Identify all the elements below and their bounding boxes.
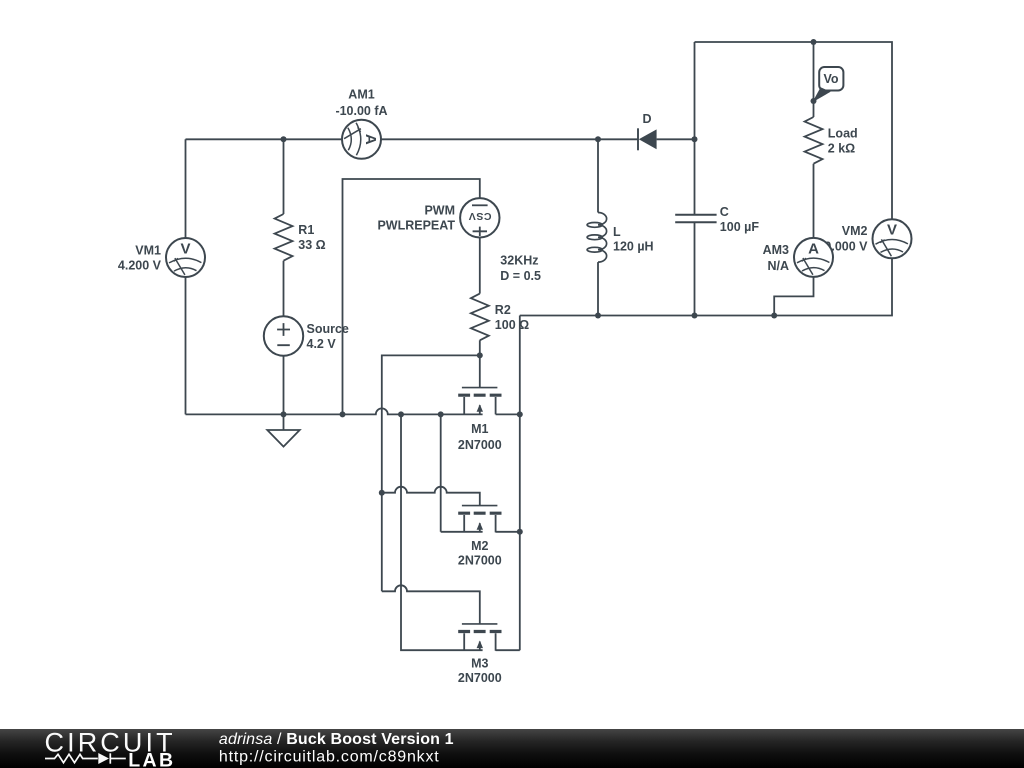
svg-text:2 kΩ: 2 kΩ — [828, 142, 855, 156]
svg-text:R2: R2 — [495, 303, 511, 317]
svg-text:M1: M1 — [471, 422, 488, 436]
svg-text:V: V — [180, 240, 190, 257]
svg-text:PWLREPEAT: PWLREPEAT — [377, 219, 455, 233]
svg-text:http://circuitlab.com/c89nkxt: http://circuitlab.com/c89nkxt — [219, 748, 440, 765]
svg-text:M3: M3 — [471, 656, 488, 670]
svg-text:32KHz: 32KHz — [500, 253, 538, 267]
svg-text:L: L — [613, 225, 621, 239]
svg-text:M2: M2 — [471, 539, 488, 553]
svg-text:4.200 V: 4.200 V — [118, 258, 162, 272]
svg-text:R1: R1 — [298, 223, 314, 237]
svg-text:100 Ω: 100 Ω — [495, 318, 529, 332]
svg-text:Vo: Vo — [823, 72, 838, 86]
svg-text:D: D — [642, 112, 651, 126]
svg-text:33 Ω: 33 Ω — [298, 238, 325, 252]
svg-text:2N7000: 2N7000 — [458, 671, 502, 685]
svg-text:VM2: VM2 — [842, 224, 868, 238]
svg-text:VM1: VM1 — [135, 243, 161, 257]
svg-text:CSV: CSV — [468, 210, 491, 222]
svg-text:adrinsa / Buck Boost Version 1: adrinsa / Buck Boost Version 1 — [219, 731, 454, 748]
svg-text:120 µH: 120 µH — [613, 240, 654, 254]
svg-text:D = 0.5: D = 0.5 — [500, 269, 541, 283]
svg-text:AM1: AM1 — [348, 87, 374, 101]
svg-text:V: V — [887, 222, 897, 239]
svg-text:N/A: N/A — [767, 259, 789, 273]
svg-text:C: C — [720, 205, 729, 219]
svg-text:PWM: PWM — [424, 204, 455, 218]
svg-text:100 µF: 100 µF — [720, 220, 760, 234]
svg-text:A: A — [808, 240, 819, 257]
svg-text:-10.00 fA: -10.00 fA — [335, 104, 387, 118]
svg-text:4.2 V: 4.2 V — [307, 337, 337, 351]
svg-text:2N7000: 2N7000 — [458, 553, 502, 567]
svg-text:LAB: LAB — [128, 750, 175, 768]
svg-text:Load: Load — [828, 126, 858, 140]
svg-text:2N7000: 2N7000 — [458, 438, 502, 452]
svg-text:AM3: AM3 — [763, 243, 789, 257]
svg-text:A: A — [362, 134, 379, 145]
